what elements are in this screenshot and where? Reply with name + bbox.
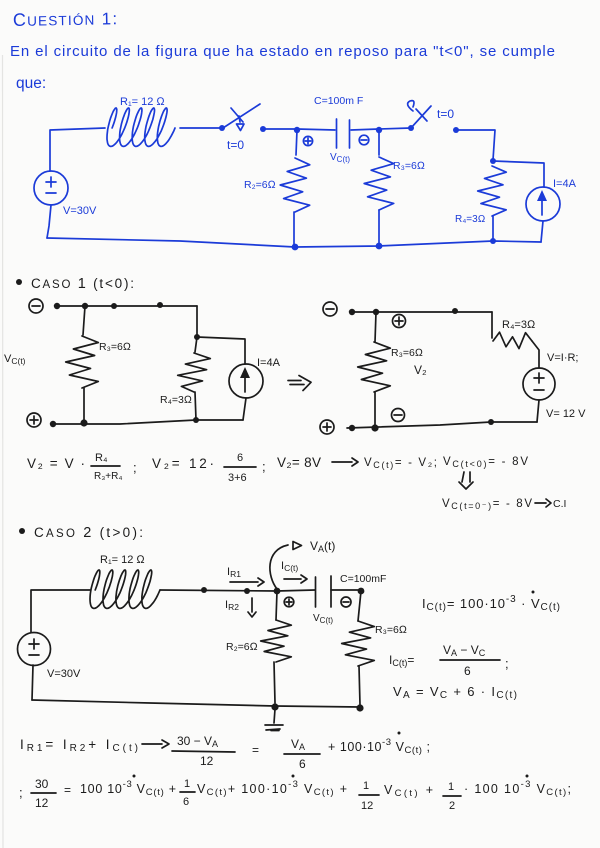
node after switch1	[260, 126, 266, 132]
svg-text:6: 6	[183, 796, 189, 808]
svg-text:VA: VA	[291, 737, 305, 752]
svg-text:R₃=6Ω: R₃=6Ω	[393, 160, 425, 172]
svg-text:V=I·R;: V=I·R;	[547, 352, 578, 364]
svg-text:IR1: IR1	[227, 566, 241, 579]
label t=0 switch2	[437, 107, 454, 121]
minus terminal top-left c1L	[29, 299, 43, 313]
label R3=6ohm c1R	[391, 347, 423, 359]
svg-text:100 10-3 VC(t) +: 100 10-3 VC(t) +	[80, 779, 176, 798]
label R3=6ohm c1L	[99, 341, 131, 353]
resistor R3 c1L	[66, 306, 99, 423]
arrow bottom1	[142, 740, 169, 748]
label V=30V	[63, 205, 97, 217]
svg-text:IR1= IR2+ IC(t): IR1= IR2+ IC(t)	[20, 737, 138, 754]
node c1L R3 top	[82, 303, 88, 309]
bottom2 term4	[464, 775, 571, 799]
fraction (30-VA)/12	[172, 734, 235, 768]
switch 2 blade	[408, 101, 431, 128]
resistor R3 main	[364, 130, 394, 246]
svg-text:V₂= 8V: V₂= 8V	[277, 455, 321, 470]
paragraph line 1	[10, 43, 555, 60]
eq V2 = V R4/(R3+R4)	[27, 452, 137, 482]
svg-text:2: 2	[449, 800, 455, 812]
top wire c1L	[57, 305, 197, 307]
eq Vc(t=0-)=-8V CI	[442, 498, 566, 511]
node c1L mid2	[157, 302, 163, 308]
label R2=6 ohm main	[244, 179, 276, 191]
switch 1 blade	[223, 104, 260, 131]
resistor R1 c2	[90, 570, 160, 608]
node c1R R3 top	[373, 309, 379, 315]
bottom wire c2	[32, 700, 360, 707]
label Vc(t) c1L	[4, 353, 26, 366]
eq IR1=IR2+Ic(t)	[20, 737, 138, 754]
svg-text:V₂= 12·: V₂= 12·	[152, 456, 214, 471]
long arrow eq1	[332, 458, 358, 466]
label R3=6ohm c2	[375, 624, 407, 636]
label Ic(t) with arrow c2	[281, 560, 307, 583]
stray overbar	[266, 729, 280, 730]
voltage source V=30V	[34, 171, 68, 205]
svg-text:IC(t): IC(t)	[281, 560, 298, 573]
svg-text:R₃=6Ω: R₃=6Ω	[391, 347, 423, 359]
right branch down c1R	[491, 312, 493, 338]
voltage source c1R	[523, 368, 555, 400]
double down arrow	[459, 472, 473, 489]
svg-text:=: =	[252, 743, 259, 757]
ground symbol	[265, 709, 283, 731]
node after switch2	[453, 127, 459, 133]
svg-text:IR2: IR2	[225, 599, 239, 612]
fraction 1/6	[180, 778, 195, 808]
label VA(t)	[310, 539, 335, 554]
eq Vc(t<0)=-8V	[443, 456, 528, 469]
svg-text:V₂ = V ·: V₂ = V ·	[27, 456, 85, 471]
node ground junction	[271, 703, 278, 710]
svg-text:30 − VA: 30 − VA	[177, 734, 218, 749]
svg-text:6: 6	[237, 452, 243, 464]
label V=30V c2	[47, 668, 81, 680]
title Cuestion 1	[13, 8, 119, 30]
svg-text:VA − VC: VA − VC	[443, 643, 486, 658]
heading Caso 1	[31, 276, 134, 292]
node c2 R3 bottom	[356, 704, 363, 711]
plus mark under wire c1R	[393, 315, 406, 328]
resistor R1	[107, 108, 175, 146]
plus mark c2	[284, 597, 294, 607]
wire switch1 to node A	[263, 128, 297, 130]
svg-text:IC(t)= 100·10-3 · VC(t): IC(t)= 100·10-3 · VC(t)	[422, 594, 560, 613]
resistor R4 main	[478, 166, 507, 216]
svg-text:VC(t)+ 100·10-3 VC(t) +: VC(t)+ 100·10-3 VC(t) +	[197, 779, 347, 798]
svg-text:6: 6	[299, 757, 306, 771]
node c1R right bottom	[488, 419, 494, 425]
node c1L mid1	[111, 303, 117, 309]
svg-text:1: 1	[448, 781, 454, 793]
node c1L bottom left	[50, 421, 56, 427]
bottom2 term2	[197, 775, 347, 799]
svg-text:t=0: t=0	[437, 107, 454, 121]
wire node A to capacitor	[297, 129, 335, 130]
svg-text:1: 1	[184, 778, 190, 790]
label IR2 with down arrow	[225, 598, 256, 617]
svg-text:VC(t)= - V₂;: VC(t)= - V₂;	[364, 457, 437, 470]
svg-text:R₃=6Ω: R₃=6Ω	[375, 624, 407, 636]
svg-text:R₂=6Ω: R₂=6Ω	[226, 641, 258, 653]
label Vc(t) c2	[313, 613, 333, 625]
minus terminal top-left c1R	[323, 302, 337, 316]
capacitor plates c2	[316, 576, 332, 607]
node c2 A junction	[274, 588, 281, 595]
label R4=3ohm c1L	[160, 394, 192, 406]
svg-text:R₃+R₄: R₃+R₄	[94, 471, 122, 482]
wire source bottom c1L	[243, 398, 246, 420]
implies arrow	[288, 376, 311, 391]
svg-text:VC(t) +: VC(t) +	[384, 783, 433, 799]
label R1 = 12 ohm	[120, 96, 165, 108]
curved arrow to VA(t)	[270, 542, 302, 590]
wire current source to bottom rail	[541, 221, 543, 242]
svg-text:C.I: C.I	[553, 498, 566, 510]
minus mark above bottom wire c1R	[392, 409, 405, 422]
svg-text:1: 1	[363, 780, 369, 792]
svg-text:+ 100·10-3 VC(t) ;: + 100·10-3 VC(t) ;	[328, 737, 430, 756]
node c1L R4 bottom	[193, 417, 199, 423]
bottom wire c1L	[52, 420, 243, 424]
current source c1L	[229, 364, 263, 398]
capacitor C plates	[337, 119, 350, 148]
node c1R bottom left	[349, 425, 355, 431]
svg-text:VC(t=0⁻)= - 8V: VC(t=0⁻)= - 8V	[442, 498, 532, 511]
svg-text:IC(t)=: IC(t)=	[389, 653, 414, 668]
plus terminal bottom-left c1L	[27, 413, 41, 427]
bottom2 term3	[384, 783, 433, 799]
svg-text:V= 12 V: V= 12 V	[546, 408, 586, 420]
svg-text:CASO 2 (t>0):: CASO 2 (t>0):	[34, 525, 143, 541]
wire left c2	[31, 590, 90, 632]
label V2 c1R	[414, 363, 427, 377]
svg-text:C=100m F: C=100m F	[314, 95, 363, 107]
label R4=3 ohm main	[455, 214, 485, 225]
equals bottom1	[252, 743, 259, 757]
wire R1 to switch	[180, 127, 222, 129]
node R3 bottom	[376, 243, 383, 250]
svg-text:V=30V: V=30V	[63, 205, 97, 217]
eq Ic(t)=100e-3 Vdot	[422, 591, 560, 614]
resistor R4 c1R horizontal	[493, 332, 532, 348]
fraction 1/2	[443, 781, 461, 812]
label I=4A main	[553, 178, 577, 190]
node c1L top start	[54, 303, 60, 309]
node C junction	[490, 158, 496, 164]
node A junction	[294, 127, 300, 133]
paper edge shading	[2, 55, 5, 848]
label R4=3ohm c1R	[502, 319, 536, 331]
node c1L R3 bottom	[80, 419, 87, 426]
svg-text:;: ;	[133, 460, 137, 475]
svg-text:· 100 10-3 VC(t);: · 100 10-3 VC(t);	[464, 779, 571, 798]
svg-text:CUESTIÓN 1:: CUESTIÓN 1:	[13, 8, 119, 30]
label R3=6 ohm main	[393, 160, 425, 172]
voltage source c2	[18, 633, 51, 666]
svg-text:CASO 1 (t<0):: CASO 1 (t<0):	[31, 276, 134, 292]
svg-text:V=30V: V=30V	[47, 668, 81, 680]
wire source bottom c1R	[537, 400, 539, 422]
label t=0 switch1	[227, 138, 244, 152]
svg-text:;: ;	[262, 459, 266, 474]
svg-text:R₁= 12 Ω: R₁= 12 Ω	[100, 554, 145, 566]
svg-text:En el circuito de la figura qu: En el circuito de la figura que ha estad…	[10, 43, 555, 60]
eq VA=Vc+6Ic(t)	[393, 684, 517, 701]
resistor R3 c2	[342, 591, 375, 705]
svg-text:R₄: R₄	[95, 452, 108, 464]
label C=100mF c2	[340, 573, 386, 585]
svg-text:12: 12	[200, 754, 214, 768]
label V=12V c1R	[546, 408, 586, 420]
resistor R3 c1R	[358, 312, 391, 428]
svg-text:V₂: V₂	[414, 363, 427, 377]
node c1R R3 bottom	[371, 424, 378, 431]
plus polarity mark	[303, 136, 312, 145]
node c2 mid2	[244, 588, 250, 594]
node switch2 left	[408, 125, 414, 131]
svg-text:R₁= 12 Ω: R₁= 12 Ω	[120, 96, 165, 108]
top wire c1R	[352, 311, 492, 313]
wire switch2 to R4 branch	[456, 130, 495, 160]
svg-text:que:: que:	[16, 75, 46, 92]
bullet caso2	[19, 528, 25, 534]
top wire R1 to C c2	[160, 590, 315, 591]
svg-text:VC(t): VC(t)	[330, 152, 350, 164]
wire top-left from source to R1	[50, 128, 105, 171]
svg-text:R₄=3Ω: R₄=3Ω	[160, 394, 192, 406]
node switch1 left	[219, 125, 225, 131]
label C=100m F	[314, 95, 363, 107]
svg-text:VC(t<0)= - 8V: VC(t<0)= - 8V	[443, 456, 528, 469]
label R1=12ohm c2	[100, 554, 145, 566]
svg-text:R₂=6Ω: R₂=6Ω	[244, 179, 276, 191]
bottom2 equals	[64, 783, 71, 797]
bullet caso1	[16, 279, 22, 285]
eq V2 = 12 6/(3+6)	[152, 452, 266, 484]
eq Vc(t)=-V2	[364, 457, 437, 470]
minus mark c2	[341, 597, 351, 607]
node c1R mid	[452, 308, 458, 314]
wire R4 to source c1R	[532, 341, 539, 368]
wire capacitor to node B	[351, 129, 379, 130]
wire source bottom c2	[32, 665, 33, 700]
label I=4A c1L	[257, 357, 281, 369]
svg-text:30: 30	[35, 777, 49, 791]
svg-text:VA = VC + 6 · IC(t): VA = VC + 6 · IC(t)	[393, 684, 517, 701]
eq Ic(t)=(VA-Vc)/6	[389, 643, 509, 678]
rest of bottom1	[328, 732, 430, 757]
wire source bottom to bottom rail	[47, 205, 51, 238]
resistor R2 c2	[261, 591, 292, 703]
svg-text:3+6: 3+6	[228, 472, 247, 484]
svg-text:VC(t): VC(t)	[313, 613, 333, 625]
svg-text:;: ;	[505, 656, 509, 671]
paragraph line 2	[16, 75, 46, 92]
minus polarity mark	[359, 135, 369, 145]
fraction 1/12	[359, 780, 379, 812]
svg-text:12: 12	[361, 800, 373, 812]
svg-text:VA(t): VA(t)	[310, 539, 335, 554]
node c2 B junction	[358, 588, 365, 595]
bottom wire c1R	[347, 422, 537, 428]
wire node B to switch2	[379, 128, 411, 129]
svg-text:R₄=3Ω: R₄=3Ω	[455, 214, 485, 225]
label IR1 with arrow	[227, 566, 264, 586]
wire cap to R3 c2	[331, 589, 361, 591]
node R2 bottom	[292, 244, 299, 251]
bottom2 terms	[80, 775, 176, 799]
node c1R top start	[349, 309, 355, 315]
label R2=6ohm c2	[226, 641, 258, 653]
resistor R2 main	[280, 130, 310, 247]
svg-text:I=4A: I=4A	[257, 357, 281, 369]
svg-text:=: =	[64, 783, 71, 797]
node c1L right junction	[194, 334, 200, 340]
right branch wire c1L	[196, 306, 198, 337]
svg-text:I=4A: I=4A	[553, 178, 577, 190]
wire R4 to bottom rail	[492, 216, 494, 241]
eq V2 = 8V	[277, 455, 321, 470]
svg-text:t=0: t=0	[227, 138, 244, 152]
svg-text:;: ;	[19, 785, 23, 800]
label V=I.R c1R	[547, 352, 578, 364]
current source I=4A	[526, 187, 560, 221]
svg-text:6: 6	[464, 664, 471, 678]
wire node C to current source	[493, 161, 544, 187]
resistor R4 c1L	[178, 337, 211, 420]
svg-text:R₄=3Ω: R₄=3Ω	[502, 319, 536, 331]
node B junction	[376, 127, 382, 133]
fraction VA/6	[284, 737, 320, 771]
bottom rail main	[47, 238, 541, 247]
wire to current source c1L	[197, 337, 245, 364]
svg-text:R₃=6Ω: R₃=6Ω	[99, 341, 131, 353]
node c2 mid1	[201, 587, 207, 593]
bottom2 semicolon and 30/12	[19, 777, 56, 810]
node R4 bottom	[490, 238, 496, 244]
svg-text:12: 12	[35, 796, 49, 810]
svg-text:C=100mF: C=100mF	[340, 573, 386, 585]
heading Caso 2	[34, 525, 143, 541]
plus terminal bottom-left c1R	[320, 420, 334, 434]
label Vc(t) main	[330, 152, 350, 164]
svg-text:VC(t): VC(t)	[4, 353, 26, 366]
